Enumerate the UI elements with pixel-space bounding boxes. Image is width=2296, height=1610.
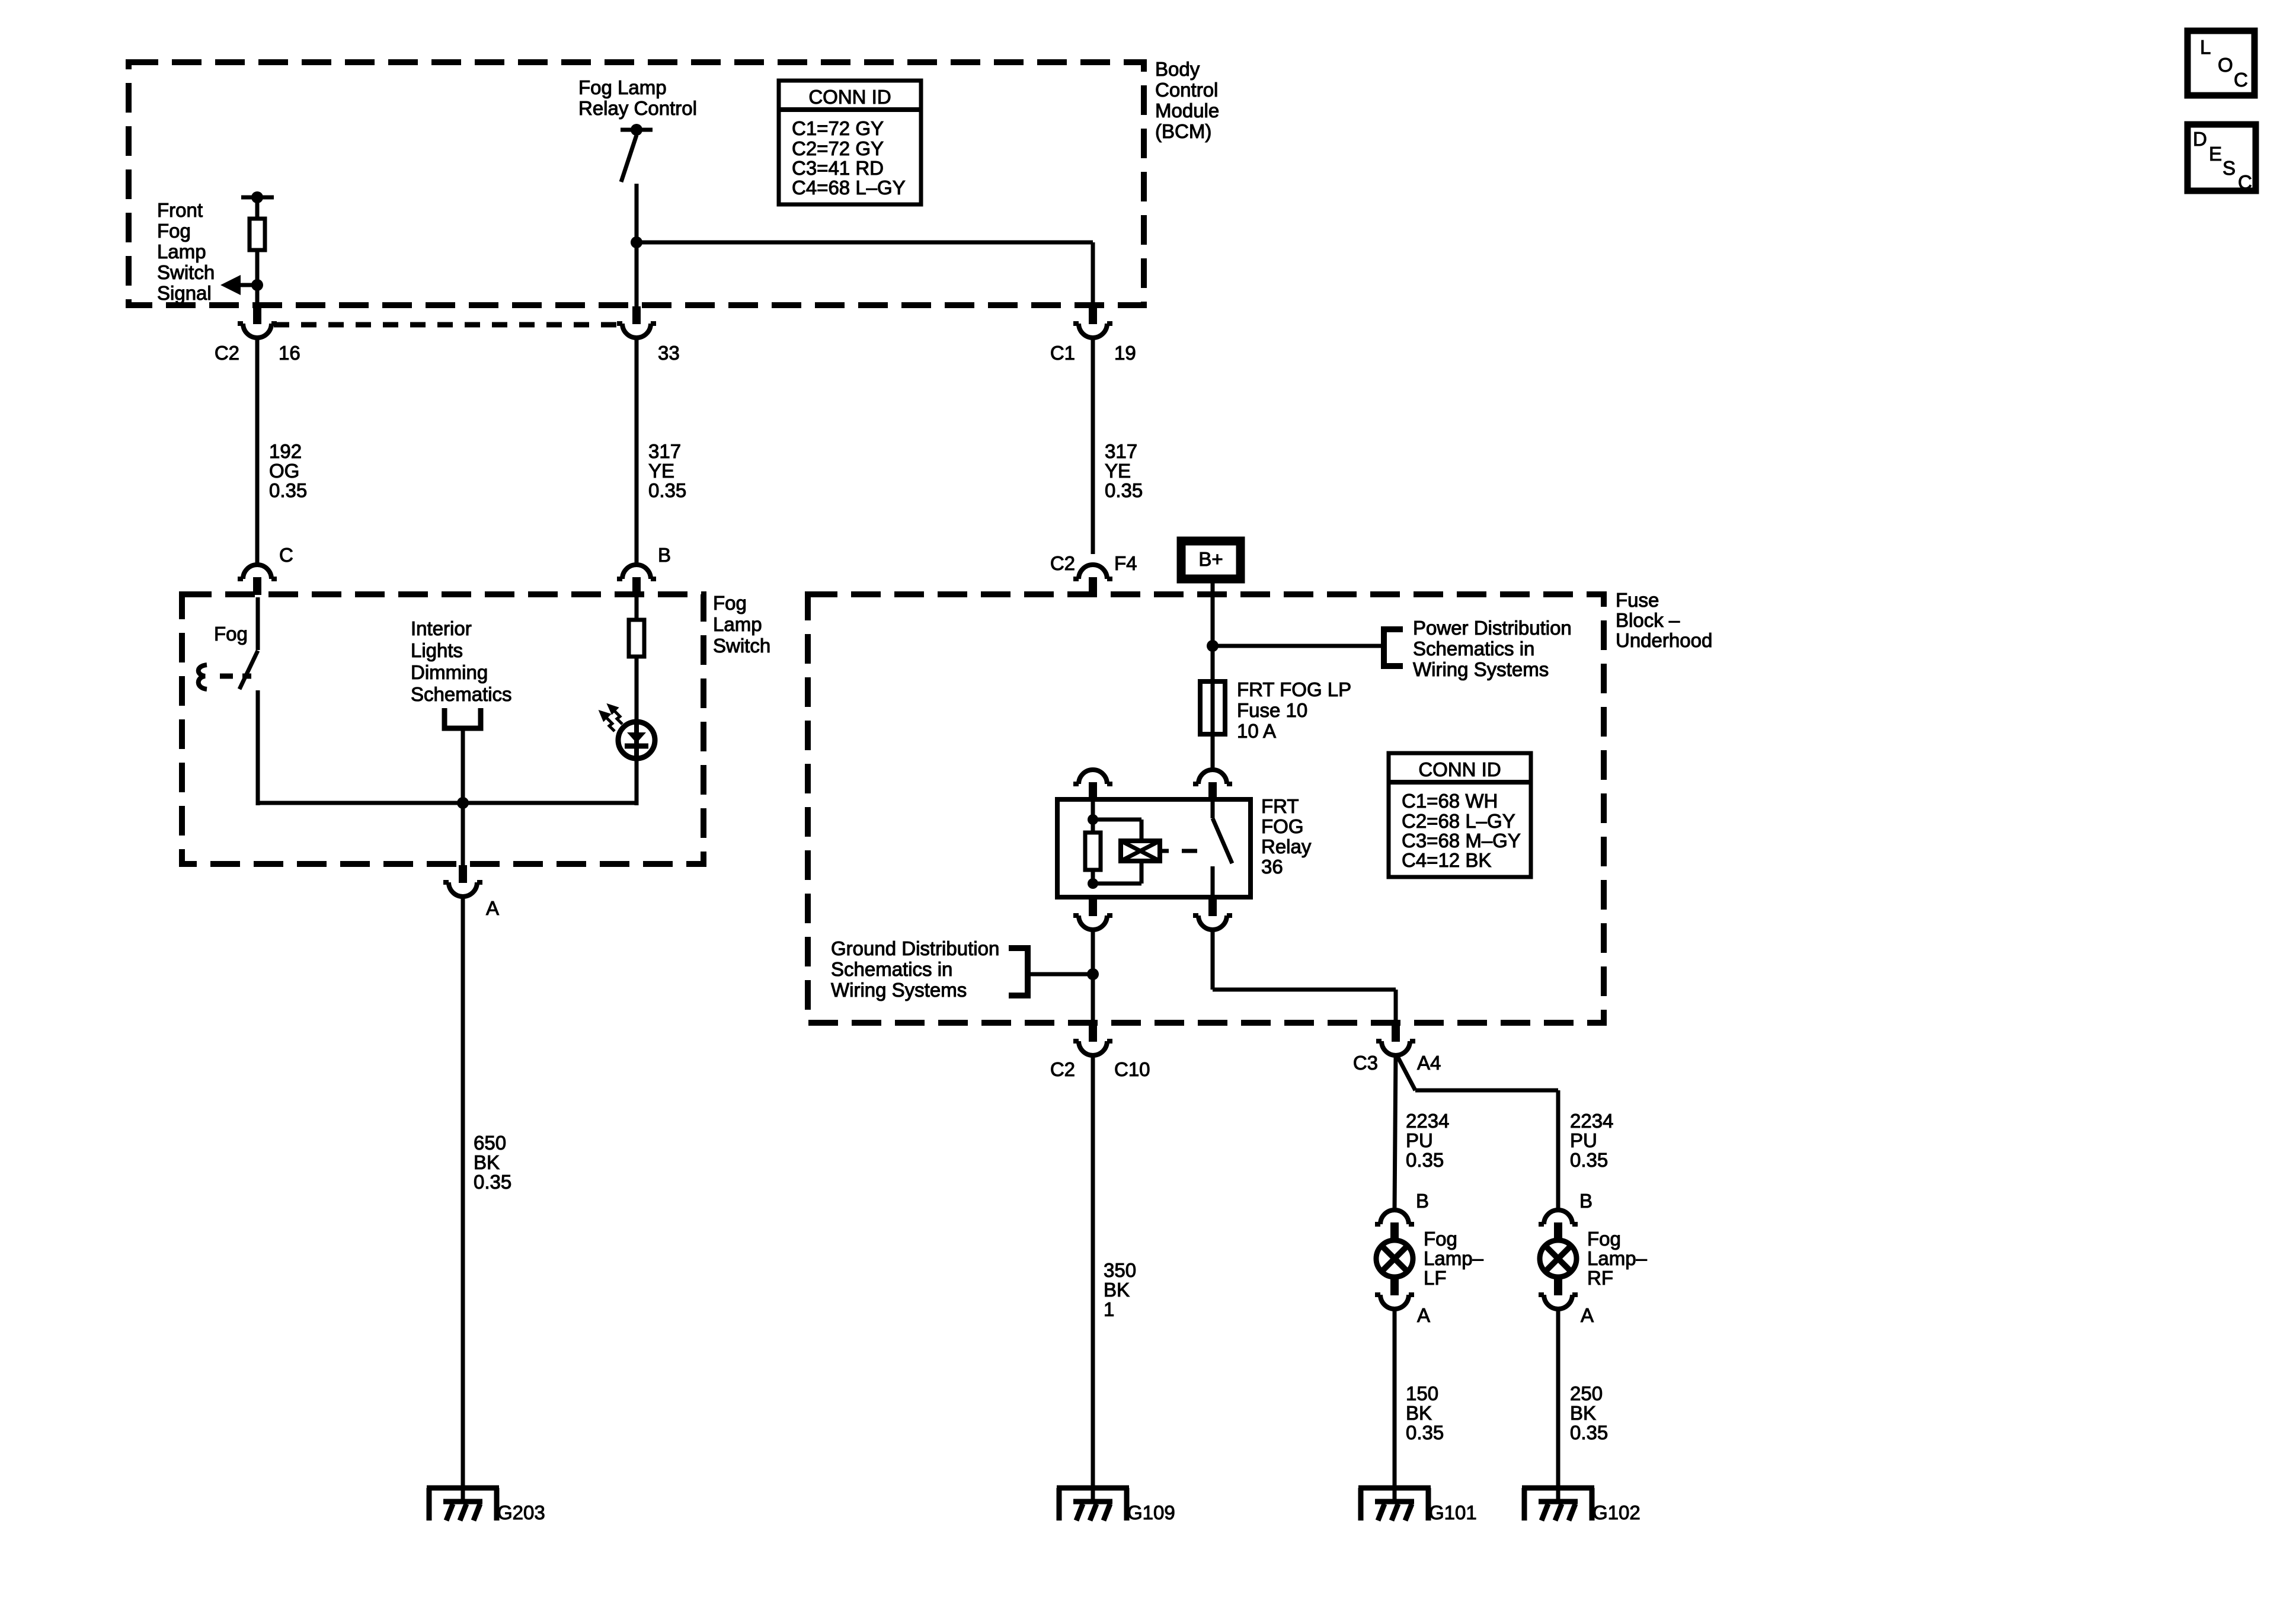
connector C2 pin F4 at fuse block: [1073, 565, 1112, 595]
label 2234 PU 0.35 right: [1570, 1110, 1613, 1171]
svg-text:BK: BK: [474, 1151, 500, 1173]
svg-text:PU: PU: [1406, 1129, 1433, 1151]
svg-text:C3: C3: [1353, 1052, 1378, 1074]
svg-text:BK: BK: [1570, 1402, 1596, 1424]
label Power Distribution Schematics in Wiring Systems: [1413, 617, 1572, 680]
svg-text:Fuse: Fuse: [1616, 589, 1659, 611]
svg-text:Fog: Fog: [214, 623, 248, 645]
svg-text:D: D: [2193, 128, 2207, 150]
svg-text:S: S: [2223, 157, 2236, 179]
svg-text:C2: C2: [215, 342, 239, 364]
label A lamp RF: [1581, 1304, 1594, 1326]
svg-text:O: O: [2218, 54, 2233, 76]
node relay control terminal bar: [621, 128, 653, 132]
svg-text:Body: Body: [1155, 58, 1200, 80]
wire 650 BK 0.35: [461, 897, 465, 1501]
svg-text:0.35: 0.35: [1105, 479, 1143, 501]
switch detent symbol: [199, 665, 207, 689]
svg-text:BK: BK: [1104, 1279, 1130, 1301]
svg-text:Fog Lamp: Fog Lamp: [578, 76, 667, 98]
connector relay pin 87 out: [1073, 898, 1112, 930]
connector C2 pin 16: [238, 306, 277, 338]
wire resistor to arrow node: [255, 250, 260, 285]
svg-text:FOG: FOG: [1261, 815, 1304, 837]
fuse FRT FOG LP: [1200, 681, 1225, 734]
svg-text:0.35: 0.35: [648, 479, 686, 501]
svg-text:150: 150: [1406, 1382, 1438, 1404]
label 350 BK 1: [1104, 1259, 1136, 1320]
svg-text:16: 16: [279, 342, 300, 364]
wire relay coil branch: [1093, 818, 1141, 822]
label Body Control Module (BCM): [1155, 58, 1219, 142]
connector C1 pin 19: [1073, 306, 1112, 338]
label 150 BK 0.35: [1406, 1382, 1444, 1443]
label 317 YE 0.35 left: [648, 440, 686, 501]
svg-text:Block –: Block –: [1616, 609, 1680, 631]
switch relay contact: [1211, 799, 1215, 818]
svg-text:C2=72 GY: C2=72 GY: [792, 137, 884, 159]
lamp Fog Lamp-RF: [1540, 1240, 1576, 1277]
svg-text:C1=72 GY: C1=72 GY: [792, 117, 884, 139]
arrow front fog lamp switch signal: [220, 275, 263, 295]
junction B+ distribution: [1207, 640, 1219, 652]
svg-text:0.35: 0.35: [1570, 1422, 1608, 1443]
wire arrow node to connector C2-16: [255, 285, 260, 308]
label F4: [1114, 552, 1137, 574]
bracket interior lights dimming: [445, 708, 481, 728]
svg-text:C1: C1: [1050, 342, 1075, 364]
svg-text:C3=41 RD: C3=41 RD: [792, 157, 884, 179]
label Interior Lights Dimming Schematics: [411, 617, 512, 705]
svg-text:10 A: 10 A: [1237, 720, 1276, 742]
wire junction to C1-19 drop: [637, 241, 1093, 245]
svg-text:Interior: Interior: [411, 617, 472, 639]
svg-text:C: C: [279, 544, 293, 566]
BCM module dashed box: [129, 62, 1144, 305]
svg-text:C1=68 WH: C1=68 WH: [1402, 790, 1498, 812]
CONN ID table (Fuse Block): [1389, 753, 1531, 877]
wire relay output jog: [1211, 929, 1215, 990]
Fuse Block dashed box: [808, 594, 1604, 1023]
label Fog: [214, 623, 248, 645]
wire relay coil left lower: [1091, 870, 1095, 884]
wire resistor to led: [635, 657, 639, 721]
svg-text:C: C: [2234, 69, 2248, 91]
wire split to RF lamp: [1396, 1054, 1415, 1090]
svg-text:0.35: 0.35: [1570, 1149, 1608, 1171]
label C1: [1050, 342, 1075, 364]
svg-text:Fuse 10: Fuse 10: [1237, 699, 1307, 721]
svg-text:2234: 2234: [1570, 1110, 1613, 1132]
svg-text:G101: G101: [1429, 1502, 1477, 1523]
svg-text:Lamp–: Lamp–: [1587, 1247, 1648, 1269]
label 317 YE 0.35 right: [1105, 440, 1143, 501]
connector relay pin 30 out: [1193, 898, 1232, 930]
ground G109: [1057, 1488, 1129, 1521]
svg-text:Control: Control: [1155, 79, 1218, 101]
svg-text:317: 317: [648, 440, 681, 462]
label Front Fog Lamp Switch Signal: [157, 199, 215, 304]
connector C at fog lamp switch: [238, 565, 277, 595]
wire bus fog switch: [257, 801, 637, 805]
svg-text:Schematics in: Schematics in: [1413, 638, 1534, 660]
svg-text:C4=68 L–GY: C4=68 L–GY: [792, 177, 906, 199]
svg-text:C2: C2: [1050, 552, 1075, 574]
svg-text:350: 350: [1104, 1259, 1136, 1281]
LOC reference box: [2188, 31, 2255, 95]
svg-text:C4=12 BK: C4=12 BK: [1402, 849, 1491, 871]
wire 350 BK 1: [1091, 1055, 1095, 1501]
svg-text:YE: YE: [648, 460, 674, 482]
svg-text:Relay Control: Relay Control: [578, 97, 697, 119]
connector C3 pin A4: [1376, 1024, 1415, 1055]
svg-text:Dimming: Dimming: [411, 661, 488, 683]
resistor led: [629, 620, 644, 657]
label B: [658, 544, 671, 566]
svg-text:Relay: Relay: [1261, 836, 1312, 857]
svg-text:Fog: Fog: [713, 592, 747, 614]
svg-text:F4: F4: [1114, 552, 1137, 574]
svg-text:A4: A4: [1417, 1052, 1441, 1074]
svg-text:FRT FOG LP: FRT FOG LP: [1237, 678, 1351, 700]
label B lamp LF: [1416, 1190, 1429, 1212]
label Fog Lamp-LF: [1424, 1228, 1484, 1289]
dotted connector link C2-16 to 33: [274, 322, 620, 328]
label FRT FOG Relay 36: [1261, 795, 1312, 878]
svg-text:G102: G102: [1593, 1502, 1641, 1523]
wire 192 OG 0.35: [255, 338, 260, 565]
wire switch to junction: [635, 184, 639, 242]
svg-text:RF: RF: [1587, 1267, 1613, 1289]
connector pin 33: [617, 306, 656, 338]
label 16: [279, 342, 300, 364]
label 33: [658, 342, 680, 364]
label FRT FOG LP Fuse 10 10A: [1237, 678, 1351, 742]
svg-text:(BCM): (BCM): [1155, 120, 1211, 142]
label 250 BK 0.35: [1570, 1382, 1608, 1443]
wire led to bus: [635, 760, 639, 805]
svg-text:Power Distribution: Power Distribution: [1413, 617, 1572, 639]
svg-text:Ground Distribution: Ground Distribution: [831, 937, 999, 959]
wire fog switch feed: [256, 597, 260, 650]
junction ground distribution: [1087, 968, 1099, 980]
svg-text:Module: Module: [1155, 100, 1219, 121]
label C3: [1353, 1052, 1378, 1074]
svg-text:G109: G109: [1127, 1502, 1175, 1523]
svg-text:OG: OG: [269, 460, 299, 482]
svg-text:L: L: [2200, 36, 2211, 58]
svg-text:Lights: Lights: [411, 639, 463, 661]
svg-text:C: C: [2238, 171, 2252, 193]
svg-text:0.35: 0.35: [1406, 1149, 1444, 1171]
svg-text:Lamp: Lamp: [713, 613, 762, 635]
svg-text:FRT: FRT: [1261, 795, 1299, 817]
label C: [279, 544, 293, 566]
CONN ID table (BCM): [779, 81, 921, 204]
connector C2 pin C10: [1073, 1024, 1112, 1055]
resistor relay coil: [1085, 833, 1101, 870]
svg-text:19: 19: [1114, 342, 1136, 364]
label Fog Lamp Relay Control: [578, 76, 697, 119]
wire 150 BK 0.35: [1393, 1308, 1397, 1501]
lamp Fog Lamp-LF: [1376, 1240, 1413, 1277]
wire to power distribution bracket: [1213, 644, 1384, 648]
svg-text:2234: 2234: [1406, 1110, 1449, 1132]
svg-text:A: A: [486, 897, 499, 919]
svg-text:Switch: Switch: [713, 635, 770, 657]
label 2234 PU 0.35 left: [1406, 1110, 1449, 1171]
resistor front fog lamp switch signal: [250, 219, 265, 250]
junction fog switch bus: [457, 797, 469, 809]
svg-text:317: 317: [1105, 440, 1137, 462]
label Fuse Block - Underhood: [1616, 589, 1712, 651]
wire relay coil left upper: [1091, 799, 1095, 833]
svg-text:Underhood: Underhood: [1616, 629, 1712, 651]
svg-text:LF: LF: [1424, 1267, 1447, 1289]
svg-text:Schematics in: Schematics in: [831, 958, 952, 980]
connector A lamp LF: [1375, 1278, 1414, 1309]
label A lamp LF: [1417, 1304, 1430, 1326]
label A fog switch: [486, 897, 499, 919]
B+ terminal box: [1181, 541, 1240, 579]
label 192 OG 0.35: [269, 440, 307, 501]
bracket power distribution: [1384, 629, 1403, 666]
svg-text:Fog: Fog: [1587, 1228, 1621, 1250]
svg-text:E: E: [2209, 143, 2222, 165]
connector pin A fog switch: [443, 865, 482, 897]
svg-text:Signal: Signal: [157, 282, 212, 304]
svg-text:192: 192: [269, 440, 302, 462]
label 19: [1114, 342, 1136, 364]
wire bus to connector A: [461, 803, 465, 865]
svg-text:Fog: Fog: [157, 220, 191, 242]
DESC reference box: [2188, 124, 2256, 193]
wire B to led resistor: [635, 597, 639, 620]
wire fog switch lower terminal: [256, 690, 260, 805]
connector relay pin 85: [1193, 770, 1232, 800]
svg-text:C2=68 L–GY: C2=68 L–GY: [1402, 810, 1515, 832]
svg-text:36: 36: [1261, 856, 1283, 878]
wire junction to connector 33: [635, 242, 639, 308]
svg-text:1: 1: [1104, 1298, 1114, 1320]
svg-text:Lamp–: Lamp–: [1424, 1247, 1484, 1269]
label Fog Lamp Switch: [713, 592, 770, 657]
svg-text:CONN ID: CONN ID: [808, 86, 891, 108]
svg-text:Schematics: Schematics: [411, 683, 512, 705]
svg-text:B: B: [1416, 1190, 1429, 1212]
junction relay coil top: [1088, 814, 1098, 825]
junction relay control: [631, 236, 642, 248]
switch fog lamp relay control blade: [621, 135, 637, 182]
dashed mechanical link: [220, 674, 251, 679]
connector B lamp RF: [1539, 1210, 1578, 1240]
label A4: [1417, 1052, 1441, 1074]
Fog Lamp Switch dashed box: [182, 594, 703, 864]
wire split to LF lamp: [1395, 1054, 1396, 1209]
label C2 bottom: [1050, 1058, 1075, 1080]
switch fog blade: [239, 651, 258, 689]
svg-text:BK: BK: [1406, 1402, 1432, 1424]
label Ground Distribution Schematics in Wiring Systems: [831, 937, 999, 1001]
label C2 at fuse block: [1050, 552, 1075, 574]
ground G101: [1358, 1488, 1431, 1521]
svg-text:0.35: 0.35: [1406, 1422, 1444, 1443]
svg-text:Switch: Switch: [157, 261, 215, 283]
svg-text:Front: Front: [157, 199, 203, 221]
connector B at fog lamp switch: [617, 565, 656, 595]
wire to connector C1-19: [1091, 242, 1095, 308]
label G101: [1429, 1502, 1477, 1523]
label 650 BK 0.35: [474, 1132, 511, 1193]
connector relay pin 86: [1073, 770, 1112, 800]
label G109: [1127, 1502, 1175, 1523]
svg-text:650: 650: [474, 1132, 506, 1154]
relay FRT FOG box: [1057, 799, 1251, 897]
wire terminal to resistor: [255, 197, 260, 219]
svg-text:CONN ID: CONN ID: [1418, 758, 1501, 780]
svg-text:A: A: [1581, 1304, 1594, 1326]
connector B lamp LF: [1375, 1210, 1414, 1240]
label G102: [1593, 1502, 1641, 1523]
LED photon arrows: [601, 706, 622, 731]
bracket ground distribution: [1009, 948, 1028, 996]
svg-text:250: 250: [1570, 1382, 1603, 1404]
svg-text:B: B: [1579, 1190, 1593, 1212]
svg-text:A: A: [1417, 1304, 1430, 1326]
wire 250 BK 0.35: [1556, 1308, 1560, 1501]
junction relay coil bottom: [1088, 878, 1098, 889]
svg-text:Wiring Systems: Wiring Systems: [831, 979, 967, 1001]
label G203: [497, 1502, 545, 1523]
svg-text:PU: PU: [1570, 1129, 1597, 1151]
svg-text:YE: YE: [1105, 460, 1131, 482]
svg-text:G203: G203: [497, 1502, 545, 1523]
svg-text:Wiring Systems: Wiring Systems: [1413, 658, 1549, 680]
wire bracket to junction: [1028, 972, 1093, 977]
LED indicator: [618, 721, 655, 760]
wire dimming bracket tail: [461, 728, 465, 803]
wire B+ into fuse block: [1211, 583, 1215, 681]
svg-text:B: B: [658, 544, 671, 566]
wire 317 YE 0.35 right: [1091, 338, 1095, 554]
dashed relay actuation link: [1182, 849, 1197, 853]
ground G102: [1522, 1488, 1594, 1521]
connector A lamp RF: [1539, 1278, 1578, 1309]
wire relay to ground distribution: [1091, 929, 1095, 1024]
svg-text:Lamp: Lamp: [157, 241, 206, 263]
label Fog Lamp-RF: [1587, 1228, 1648, 1289]
node terminal bar: [241, 196, 274, 200]
ground G203: [427, 1488, 499, 1521]
svg-text:33: 33: [658, 342, 680, 364]
svg-text:C10: C10: [1114, 1058, 1150, 1080]
svg-text:C3=68 M–GY: C3=68 M–GY: [1402, 830, 1521, 852]
wire 317 YE 0.35 left: [635, 338, 639, 565]
svg-text:B+: B+: [1198, 548, 1223, 570]
svg-text:0.35: 0.35: [474, 1171, 511, 1193]
svg-text:C2: C2: [1050, 1058, 1075, 1080]
label C10: [1114, 1058, 1150, 1080]
svg-text:Fog: Fog: [1424, 1228, 1457, 1250]
label B lamp RF: [1579, 1190, 1593, 1212]
svg-text:0.35: 0.35: [269, 479, 307, 501]
label C2: [215, 342, 239, 364]
wire fuse to relay: [1211, 734, 1215, 769]
solenoid relay coil symbol: [1121, 841, 1169, 861]
